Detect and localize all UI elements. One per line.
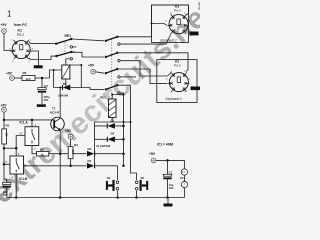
svg-text:C4: C4: [3, 179, 7, 183]
svg-text:1: 1: [7, 10, 12, 19]
junction (16.2,197.5): [15, 196, 18, 199]
collector vertical: [59, 88, 61, 119]
coil RE1b bottom stub: [111, 118, 113, 123]
svg-text:IC1: IC1: [180, 176, 185, 180]
x4 vertical down to C4: [4, 148, 7, 182]
pushbutton S2: [135, 176, 148, 191]
relay coil RE1a: [62, 65, 70, 79]
wire NC2 to right pole2: [72, 52, 104, 57]
svg-text:10k: 10k: [71, 150, 75, 155]
diode D3: [87, 147, 95, 157]
IC1.B left pin: [4, 161, 10, 165]
ground bar C3: [37, 104, 46, 107]
svg-text:Keyboard 1: Keyboard 1: [166, 97, 183, 101]
wire NO2 to coil RE1a top: [66, 58, 70, 60]
supply +5V IC1: [149, 152, 156, 163]
svg-text:1M: 1M: [5, 133, 9, 138]
resistor R1: [2, 124, 10, 145]
IC1 14-7 link: [183, 175, 185, 181]
wire S2 bottom: [136, 191, 138, 198]
svg-text:R4: R4: [74, 143, 78, 147]
svg-text:+5V: +5V: [149, 152, 156, 156]
connector K2: [166, 59, 192, 101]
wire S1 bottom: [117, 191, 119, 198]
capacitor C3: [38, 84, 50, 102]
svg-text:IC1.A: IC1.A: [20, 121, 29, 125]
wire NO1 stub: [72, 46, 76, 48]
wire K1 UR pin to pole1: [29, 41, 55, 43]
R1 bottom to node: [3, 144, 5, 148]
svg-text:D5: D5: [63, 82, 67, 86]
wire +5V to pole3: [96, 72, 104, 73]
wire C3 top: [41, 78, 43, 88]
svg-text:from PC: from PC: [14, 23, 27, 27]
diode D2: [107, 132, 115, 142]
svg-text:+5V: +5V: [1, 23, 8, 27]
IC1.B bottom stub: [15, 174, 17, 198]
junction (136.5,197.5): [135, 196, 138, 199]
wire K1 LR pin to pole2: [29, 56, 56, 59]
+5V IC1 wire: [156, 160, 185, 169]
ground bar bottom: [164, 204, 173, 207]
wire NO4' to rail: [120, 92, 123, 94]
junction (167.5,160.4): [166, 159, 169, 162]
supply +5V top-left: [1, 23, 8, 33]
junction (53.6,70): [53, 69, 55, 71]
emitter vertical: [59, 130, 61, 197]
wire D2 row: [95, 138, 124, 140]
svg-text:PS-2: PS-2: [174, 9, 181, 13]
svg-text:C1: C1: [169, 170, 173, 174]
wire NC1 to right pole1: [72, 39, 104, 41]
junction (123.5,125.9): [122, 125, 125, 128]
svg-text:+5V: +5V: [6, 71, 13, 75]
junction (70.6,165.8): [69, 165, 72, 168]
+5V rail upper left: [4, 112, 53, 120]
diode D4: [87, 159, 95, 169]
svg-text:PS-2: PS-2: [17, 33, 24, 37]
junction (123.5,153.7): [122, 152, 125, 155]
wire NC2' to K2 UR pin: [119, 53, 189, 72]
junction (32,119.9): [31, 119, 34, 122]
R4 +5V stub: [70, 139, 72, 147]
wire +5V to K1 left pin: [4, 33, 12, 50]
transistor T1: [50, 107, 64, 131]
junction (4,148.2): [3, 147, 6, 150]
contact L1: [55, 38, 73, 48]
analog switch IC1.B: [6, 152, 28, 181]
node line y148: [4, 147, 16, 149]
ground bar K1: [34, 65, 43, 68]
C4 bottom to rail: [6, 188, 8, 198]
svg-text:D2: D2: [111, 132, 115, 136]
svg-text:IC1 = 4066: IC1 = 4066: [157, 143, 173, 147]
wire D1 row: [95, 125, 124, 127]
svg-text:+5V: +5V: [1, 104, 8, 108]
junction (16.2,148.2): [15, 147, 18, 150]
contact R2: [105, 52, 121, 62]
wire NC1' route over K3: [119, 5, 189, 37]
wire y122: [95, 121, 131, 123]
junction (81.3,65): [80, 64, 82, 66]
svg-text:16V: 16V: [3, 193, 8, 197]
svg-text:S2: S2: [141, 176, 145, 180]
supply +5V R4: [65, 129, 73, 139]
coil RE1a bottom stub: [65, 79, 67, 88]
IC1 7 to rail: [183, 188, 185, 198]
wire D3 row: [60, 153, 123, 155]
svg-text:+5V: +5V: [88, 64, 95, 68]
junction (130.5,122): [130, 121, 132, 123]
junction (167.5,197.5): [166, 196, 169, 199]
svg-text:R6: R6: [23, 71, 27, 75]
wire D5 row: [54, 87, 82, 89]
ground rail bottom: [7, 197, 185, 199]
junction (123.5,94.5): [123, 94, 125, 96]
resistor R5: [37, 148, 49, 157]
contact L2: [55, 51, 75, 60]
svg-text:1k: 1k: [41, 152, 45, 156]
svg-text:D3: D3: [88, 147, 92, 151]
wire NO3' stub: [120, 76, 136, 78]
analog switch IC1.A: [19, 121, 38, 151]
junction (60.2,153.7): [59, 152, 62, 155]
svg-text:4x 1N4148: 4x 1N4148: [96, 144, 111, 148]
IC1 power symbol: [180, 169, 187, 188]
svg-text:1N4148: 1N4148: [58, 93, 69, 97]
dashed mechanical link right column: [65, 39, 112, 99]
contact R4: [105, 84, 121, 94]
wire S1 top: [117, 166, 119, 180]
svg-text:IC1.B: IC1.B: [19, 177, 28, 181]
cathode rail vertical: [123, 93, 125, 166]
junction (123.5,165.8): [122, 165, 125, 168]
wire branch K3 left pin: [152, 24, 167, 26]
junction (123.5,122): [123, 121, 125, 123]
supply +5V left: [1, 104, 8, 113]
K2 caption box: [157, 60, 197, 103]
coil RE1b top tap: [112, 95, 123, 100]
coil RE1a bracket left: [54, 70, 62, 88]
svg-text:BC547: BC547: [50, 110, 60, 114]
IC1.A pin13 wire: [16, 136, 25, 149]
R4 bottom stub: [70, 159, 72, 166]
shield bar K3: [190, 32, 199, 36]
wire NO2' to K2 UL pin: [120, 61, 171, 76]
shield bar K2: [191, 87, 201, 91]
junction (117.6,197.5): [116, 196, 119, 199]
coil RE1a bracket right: [70, 65, 81, 88]
svg-text:D1: D1: [111, 118, 115, 122]
pushbutton S1: [106, 176, 119, 191]
wire R6 +5V: [14, 77, 22, 79]
svg-text:Keyboard 2: Keyboard 2: [160, 39, 177, 43]
svg-text:R5: R5: [40, 148, 44, 152]
dashed link left column: [64, 42, 66, 55]
junction (4,119.9): [3, 119, 6, 122]
wire NC3' to K2 L pin: [119, 69, 168, 83]
svg-text:RE1: RE1: [65, 34, 72, 38]
diode D5: [58, 82, 70, 98]
junction (42,78): [41, 77, 44, 80]
wire C3 bottom to ground: [41, 93, 43, 105]
resistor R6: [22, 71, 35, 81]
ground stub below rail: [167, 198, 169, 204]
svg-text:PS-2: PS-2: [174, 63, 181, 67]
wire NC4' to S2: [119, 85, 137, 180]
svg-text:D4: D4: [88, 159, 92, 163]
K3 caption box: [152, 5, 189, 43]
svg-text:R1: R1: [6, 124, 10, 128]
junction (60.2,197.5): [59, 196, 62, 199]
svg-text:S1: S1: [107, 176, 111, 180]
capacitor C1: [163, 170, 173, 190]
IC1.A pin2 to R5: [32, 146, 37, 154]
R5 out to emitter node: [49, 153, 60, 155]
supply +5V R6: [6, 71, 14, 80]
resistor R4: [68, 143, 78, 159]
junction (4,164.3): [3, 163, 6, 166]
IC1.B top stub: [15, 148, 17, 156]
svg-text:RE1: RE1: [100, 96, 106, 100]
contact R1: [105, 36, 121, 46]
connector K1: [9, 23, 33, 63]
wire D5 row to pole4: [81, 88, 104, 90]
contact R3: [105, 68, 121, 78]
wire R6 out to C3 node: [35, 70, 54, 78]
C1 top stub: [167, 160, 169, 174]
svg-text:16V: 16V: [169, 186, 174, 190]
coil RE1a top stub: [65, 59, 67, 65]
junction (112.2,94.5): [111, 94, 113, 96]
R1 top stub: [3, 120, 5, 129]
supply +5V mid (contacts): [88, 64, 96, 74]
diode D1: [107, 118, 115, 128]
IC1.A pin1 stub: [31, 120, 33, 127]
wire D4 row / IC1.B out: [24, 165, 118, 167]
junction (60.2,87.5): [59, 87, 61, 89]
junction (151.5,23.5): [151, 23, 153, 25]
D1-D2 left vertical: [94, 122, 96, 167]
C1 bottom stub: [167, 179, 169, 197]
svg-text:10V: 10V: [44, 98, 49, 102]
svg-text:1k5: 1k5: [26, 77, 31, 81]
svg-text:+5V: +5V: [65, 129, 72, 133]
junction (123.5,139.3): [122, 138, 125, 141]
connector K3: [160, 4, 190, 42]
capacitor C4: [3, 179, 11, 197]
relay coil RE1b: [100, 96, 116, 118]
wire NO1' to K3 LL pin: [120, 35, 170, 45]
wire K1 R pin to ground: [31, 51, 39, 66]
